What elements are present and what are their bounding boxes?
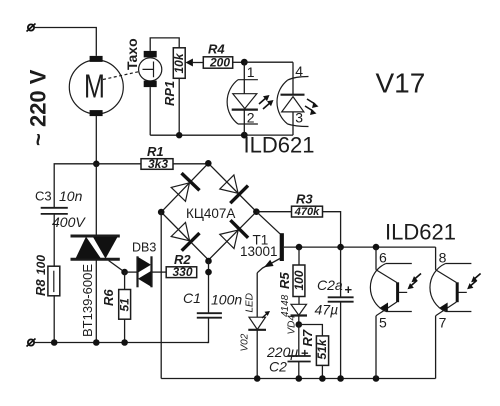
wire motor bottom to node A <box>95 116 97 164</box>
dashed link motor to taxo <box>103 72 140 80</box>
wire bridge bottom to R2 node and C1 <box>208 260 210 313</box>
svg-text:~ 220 V: ~ 220 V <box>26 69 51 146</box>
node pin6 <box>373 244 380 251</box>
triac gate wire <box>109 261 125 273</box>
wire C2 to rail <box>298 362 300 379</box>
node bridge top <box>205 160 212 167</box>
node VD4/R7/C2 <box>296 321 303 328</box>
diac DB3 <box>138 256 152 287</box>
wire R7 to rail <box>321 365 323 378</box>
svg-text:4148: 4148 <box>280 294 291 317</box>
bridge diode bottom-right <box>220 220 248 248</box>
node triac rail <box>93 339 100 346</box>
tacho generator <box>139 51 162 87</box>
node pin2 <box>241 132 248 139</box>
svg-text:100n: 100n <box>211 292 242 308</box>
terminal bottom-left <box>27 339 36 347</box>
node C2a rail <box>337 375 344 382</box>
svg-text:C1: C1 <box>183 290 201 306</box>
wire wiper to R4 <box>192 62 203 64</box>
node LED rail <box>254 375 261 382</box>
node bridge bottom <box>205 258 212 265</box>
node C2 rail <box>296 375 303 382</box>
phototransistor Q3 (pins 8-7) <box>430 264 471 379</box>
light arrows into Q2 <box>408 274 422 290</box>
svg-text:R1: R1 <box>147 144 164 159</box>
wire R8 to rail <box>53 296 55 343</box>
svg-text:51k: 51k <box>315 338 329 359</box>
resistor R7 <box>315 336 329 366</box>
svg-text:400V: 400V <box>52 214 86 230</box>
wire T1 base row <box>284 246 436 248</box>
node pin1 <box>241 59 248 66</box>
transistor T1 emitter <box>257 259 280 273</box>
LED D2 of U1 (pins 4-3) <box>277 62 309 135</box>
resistor R2 <box>166 265 197 279</box>
RP1 wiper arrow <box>185 59 193 67</box>
node pin5 rail <box>373 375 380 382</box>
svg-text:R5: R5 <box>277 272 292 289</box>
svg-text:47µ: 47µ <box>315 302 339 318</box>
triac VS1 bottom rail <box>71 258 120 261</box>
node R7 rail <box>319 375 326 382</box>
wire top rail to motor <box>34 28 96 56</box>
wire R5 <box>298 247 300 265</box>
svg-text:R3: R3 <box>296 192 313 207</box>
wire triac to rail <box>95 259 97 343</box>
wire RP1 bottom <box>178 78 180 135</box>
gnd rail right side <box>161 378 435 380</box>
motor M1 <box>69 56 123 116</box>
wire R4 to pin1 <box>233 61 245 63</box>
bridge diode bottom-left <box>171 222 199 250</box>
svg-text:+: + <box>345 282 353 297</box>
wire bottom net of opto input <box>150 134 244 136</box>
wire R6 <box>124 272 126 342</box>
svg-text:6: 6 <box>379 250 387 266</box>
bridge diode top-left <box>171 173 199 201</box>
terminal top-left <box>27 24 36 32</box>
svg-text:C2: C2 <box>269 359 287 375</box>
svg-text:C3: C3 <box>35 189 52 204</box>
wire main down to triac <box>95 164 97 236</box>
svg-text:10n: 10n <box>59 188 83 204</box>
svg-text:7: 7 <box>439 315 447 331</box>
svg-text:ILD621: ILD621 <box>385 220 456 245</box>
node R2 right <box>205 269 212 276</box>
svg-text:1: 1 <box>247 64 255 80</box>
wire R3 right to C2a column <box>323 212 341 247</box>
svg-text:4: 4 <box>295 63 303 79</box>
resistor R5 <box>292 265 306 297</box>
svg-text:330: 330 <box>173 265 193 279</box>
node C2a top <box>337 244 344 251</box>
node gate/DB3/R6 <box>121 269 128 276</box>
svg-text:R2: R2 <box>174 252 191 267</box>
svg-text:C2a: C2a <box>317 277 343 293</box>
svg-text:100: 100 <box>292 270 306 290</box>
resistor R6 <box>118 290 132 320</box>
node RP1 bottom <box>176 132 182 138</box>
capacitor C2 <box>288 356 311 362</box>
optocoupler U1 top edge pin1-pin4 <box>244 61 293 63</box>
capacitor C3 <box>41 208 68 214</box>
svg-text:КЦ407А: КЦ407А <box>186 206 235 221</box>
resistor R3 <box>292 206 323 218</box>
wire C1 bottom to left rail <box>207 318 209 343</box>
wire taxo bottom down <box>149 87 151 135</box>
diode VD4 <box>291 304 308 324</box>
svg-text:3k3: 3k3 <box>148 157 168 171</box>
wire VD4 node to C2 <box>298 325 300 356</box>
light arrow of V02 <box>262 311 270 318</box>
LED V02 <box>248 317 266 378</box>
node bridge right <box>253 208 260 215</box>
transistor T1 collector <box>256 212 280 234</box>
node bridge left <box>158 209 165 216</box>
svg-text:5: 5 <box>379 315 387 331</box>
wire R1 row <box>96 163 208 165</box>
node R6 rail <box>121 339 128 346</box>
triac VS1 top rail <box>71 235 120 238</box>
phototransistor Q2 (pins 6-5) <box>370 247 411 378</box>
bridge VD1 diamond wires <box>161 163 256 260</box>
wire emitter LED string <box>256 273 258 317</box>
optocoupler U1 bottom edge pin2-pin3 <box>244 134 293 136</box>
svg-text:R8: R8 <box>33 279 48 296</box>
left rail wire <box>34 342 208 344</box>
svg-text:R6: R6 <box>101 289 116 306</box>
svg-text:+: + <box>301 346 309 361</box>
node base/R5 <box>296 244 303 251</box>
wire C2a column <box>340 247 342 378</box>
LED D1 of U1 (pins 1-2) <box>227 62 258 135</box>
svg-text:RP1: RP1 <box>162 81 177 106</box>
capacitor C1 <box>197 313 222 318</box>
light arrows into Q3 <box>467 274 481 290</box>
svg-text:LED: LED <box>245 293 256 312</box>
wire VD4 node to R7 <box>299 325 323 336</box>
svg-text:M: M <box>84 68 105 105</box>
svg-text:8: 8 <box>439 250 447 266</box>
svg-text:13001: 13001 <box>240 244 278 259</box>
wire bridge left corner down to gnd rail <box>160 212 162 378</box>
light arrows of D2 <box>305 99 319 115</box>
wire bridge right to R3 <box>256 211 291 213</box>
resistor R1 <box>141 157 173 171</box>
bridge diode top-right <box>220 175 248 203</box>
resistor R8 <box>48 266 60 296</box>
wire R5 to VD4 <box>298 297 300 305</box>
node R8 rail <box>51 339 58 346</box>
svg-text:100: 100 <box>34 255 48 275</box>
svg-text:2: 2 <box>247 110 255 126</box>
light arrows of D1 <box>259 95 274 109</box>
svg-text:470k: 470k <box>294 206 320 218</box>
wire node A to C3 <box>54 164 96 208</box>
triac VS1 triangles <box>76 237 118 259</box>
svg-text:R4: R4 <box>208 42 225 57</box>
capacitor C2a <box>328 297 354 301</box>
wire pin8 top corner <box>435 247 437 270</box>
wire taxo top to RP1 top <box>150 38 179 51</box>
transistor T1 base bar <box>280 233 284 261</box>
svg-text:Taxo: Taxo <box>124 38 140 70</box>
svg-text:V02: V02 <box>240 333 251 351</box>
svg-text:ILD621: ILD621 <box>244 132 315 157</box>
svg-text:10k: 10k <box>172 52 186 73</box>
svg-text:R7: R7 <box>300 329 315 346</box>
node A motor/R1/triac <box>93 161 100 168</box>
svg-text:BT139-600E: BT139-600E <box>80 264 95 337</box>
wire DB3 to R2 <box>152 271 167 273</box>
potentiometer RP1 <box>172 48 186 79</box>
T1 emitter arrow <box>264 260 274 267</box>
wire C3 to R8 <box>53 214 55 266</box>
wire gate node to DB3 <box>125 271 137 273</box>
svg-text:V17: V17 <box>376 68 426 99</box>
resistor R4 <box>203 56 232 70</box>
svg-text:3: 3 <box>295 110 303 126</box>
svg-text:DB3: DB3 <box>132 241 156 255</box>
svg-text:51: 51 <box>118 298 132 312</box>
svg-text:200: 200 <box>209 56 230 70</box>
